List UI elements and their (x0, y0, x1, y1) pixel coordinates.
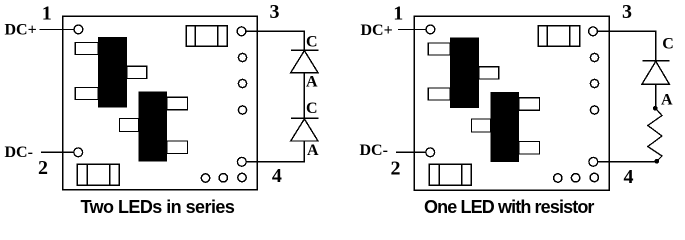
resistor footprint top-right left board (186, 26, 227, 47)
svg-text:A: A (307, 142, 319, 159)
label 1 right (393, 2, 403, 24)
pad hole 4 right (589, 157, 598, 166)
label A of D2 (307, 142, 319, 159)
svg-text:2: 2 (38, 157, 48, 179)
LED D3 right (642, 61, 670, 84)
wire DC- to pad 2 right (396, 151, 426, 153)
label 4 left (272, 165, 282, 187)
resistor footprint bottom-left right board (429, 164, 471, 185)
label C of D2 (306, 100, 318, 117)
label 4 right (624, 166, 634, 188)
transistor Q1 left board (75, 37, 146, 108)
PCB board outline left (63, 16, 258, 190)
junction dot bottom of R1 (654, 159, 659, 164)
caption right (424, 197, 594, 217)
via holes row bottom left board (201, 173, 246, 182)
junction dot top of R1 (653, 106, 658, 111)
svg-text:DC-: DC- (360, 142, 388, 159)
svg-text:DC+: DC+ (361, 22, 393, 39)
wire DC+ to pad 1 left (39, 29, 74, 31)
svg-text:C: C (306, 100, 318, 117)
svg-text:1: 1 (393, 2, 403, 24)
wire pad 3 to LED D1 (246, 31, 304, 50)
svg-text:C: C (662, 35, 674, 52)
svg-text:3: 3 (270, 1, 280, 23)
label A of D3 (661, 92, 673, 109)
svg-text:DC+: DC+ (5, 22, 37, 39)
label A of D1 (306, 73, 318, 90)
via holes column left board (238, 53, 246, 114)
LED D1 (291, 50, 319, 73)
svg-text:2: 2 (391, 158, 401, 180)
caption left (81, 197, 235, 217)
resistor R1 zigzag (648, 108, 662, 161)
wire R1 to pad 4 right (599, 161, 657, 163)
label 3 right (622, 1, 632, 23)
svg-text:A: A (661, 92, 673, 109)
label DC- left (5, 144, 33, 161)
svg-text:1: 1 (42, 2, 52, 24)
label 2 right (391, 158, 401, 180)
label C of D1 (306, 34, 318, 51)
svg-text:4: 4 (272, 165, 282, 187)
wire DC+ to pad 1 right (398, 29, 426, 31)
resistor footprint bottom-left left board (77, 164, 119, 185)
PCB board outline right (414, 16, 609, 190)
svg-text:A: A (306, 73, 318, 90)
wire DC- to pad 2 left (41, 151, 74, 153)
label DC+ right (361, 22, 393, 39)
pad hole 2 right (DC-) (426, 148, 435, 157)
label DC- right (360, 142, 388, 159)
svg-text:One LED with resistor: One LED with resistor (424, 197, 594, 217)
pad hole 3 right (589, 27, 598, 36)
pad hole 4 (237, 157, 246, 166)
LED D2 (291, 118, 319, 141)
pad hole 1 right (DC+) (426, 25, 435, 34)
wire D3 anode to resistor R1 (655, 84, 657, 108)
svg-text:Two LEDs in series: Two LEDs in series (81, 197, 235, 217)
transistor Q2 right board (472, 92, 540, 162)
label C of D3 (662, 35, 674, 52)
wire pad 3 to LED D3 (598, 31, 656, 60)
via holes row bottom right board (554, 173, 599, 182)
wire D1 anode to D2 cathode (303, 73, 305, 119)
via holes column right board (590, 53, 598, 114)
svg-text:DC-: DC- (5, 144, 33, 161)
svg-text:C: C (306, 34, 318, 51)
pad hole 2 (DC-) (74, 148, 83, 157)
pad hole 3 (237, 27, 246, 36)
resistor footprint top-right right board (538, 26, 580, 47)
wire D2 anode to pad 4 (247, 141, 305, 162)
label 2 left (38, 157, 48, 179)
svg-text:3: 3 (622, 1, 632, 23)
label 3 left (270, 1, 280, 23)
transistor Q2 left board (120, 92, 188, 162)
svg-text:4: 4 (624, 166, 634, 188)
transistor Q1 right board (428, 38, 498, 109)
pad hole 1 (DC+) (74, 25, 83, 34)
label 1 left (42, 2, 52, 24)
label DC+ left (5, 22, 37, 39)
